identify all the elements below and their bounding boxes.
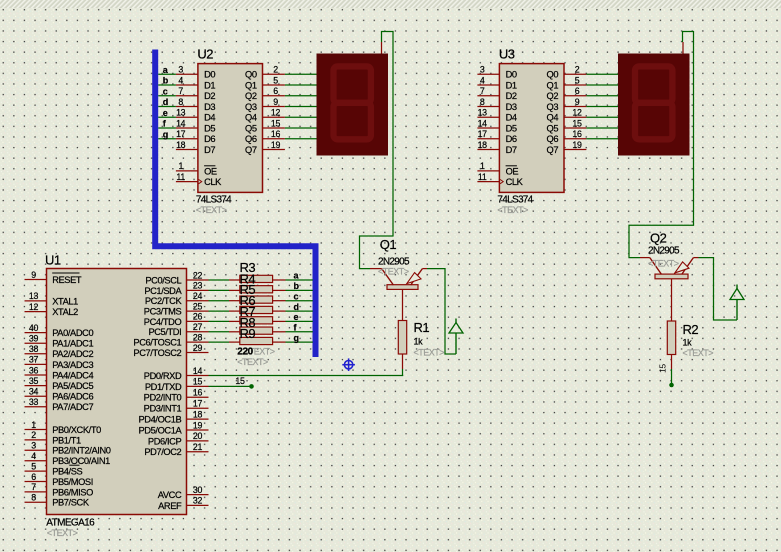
svg-text:D7: D7 <box>204 145 215 155</box>
svg-text:PD3/INT1: PD3/INT1 <box>144 404 182 414</box>
svg-text:22: 22 <box>193 270 203 280</box>
svg-text:Q4: Q4 <box>546 113 558 123</box>
svg-text:19: 19 <box>193 420 203 430</box>
svg-text:9: 9 <box>575 97 580 107</box>
svg-text:Q3: Q3 <box>245 102 257 112</box>
svg-text:D3: D3 <box>506 102 517 112</box>
svg-text:Q0: Q0 <box>546 70 558 80</box>
svg-text:16: 16 <box>193 388 203 398</box>
svg-text:4: 4 <box>480 75 485 85</box>
svg-text:c: c <box>294 291 299 301</box>
latch U2 74LS374 <box>196 47 263 216</box>
U3 left pin stubs D0-D7 with pin numbers <box>477 65 499 150</box>
7-segment display 1 <box>317 54 389 156</box>
transistor Q2 2N2905 PNP <box>640 231 699 322</box>
svg-text:<TEXT>: <TEXT> <box>414 348 445 358</box>
svg-text:Q6: Q6 <box>245 134 257 144</box>
svg-text:PC5/TDI: PC5/TDI <box>148 327 181 337</box>
svg-text:PD0/RXD: PD0/RXD <box>144 371 182 381</box>
svg-text:33: 33 <box>29 397 39 407</box>
svg-text:RESET: RESET <box>52 275 82 285</box>
svg-text:D0: D0 <box>506 70 517 80</box>
svg-text:<TEXT>: <TEXT> <box>378 267 409 277</box>
svg-text:e: e <box>294 312 299 322</box>
svg-text:13: 13 <box>176 108 186 118</box>
svg-text:4: 4 <box>178 75 183 85</box>
svg-text:13: 13 <box>478 108 488 118</box>
svg-text:12: 12 <box>271 108 281 118</box>
svg-text:18: 18 <box>478 140 488 150</box>
svg-text:PA3/ADC3: PA3/ADC3 <box>52 360 93 370</box>
svg-text:36: 36 <box>29 365 39 375</box>
svg-text:D7: D7 <box>506 145 517 155</box>
svg-text:PA2/ADC2: PA2/ADC2 <box>52 349 93 359</box>
svg-text:16: 16 <box>271 129 281 139</box>
svg-text:XTAL1: XTAL1 <box>52 296 78 306</box>
svg-text:D6: D6 <box>506 134 517 144</box>
U3 right pin stubs Q0-Q7 with pin numbers <box>564 65 586 150</box>
svg-text:Q1: Q1 <box>546 80 558 90</box>
svg-text:21: 21 <box>193 442 203 452</box>
svg-text:D5: D5 <box>204 123 215 133</box>
svg-text:1: 1 <box>480 161 485 171</box>
svg-text:26: 26 <box>193 312 203 322</box>
svg-text:8: 8 <box>480 97 485 107</box>
svg-text:1k: 1k <box>683 338 693 348</box>
svg-text:Q1: Q1 <box>380 237 397 252</box>
display 2 common pin stub <box>682 42 684 54</box>
svg-text:XTAL2: XTAL2 <box>52 307 78 317</box>
svg-text:4: 4 <box>31 451 36 461</box>
svg-text:18: 18 <box>176 140 186 150</box>
svg-text:U3: U3 <box>499 47 515 62</box>
svg-text:5: 5 <box>31 461 36 471</box>
svg-text:35: 35 <box>29 376 39 386</box>
svg-text:11: 11 <box>478 172 487 182</box>
wires U2 Q0-Q6 to 7-segment display 1 <box>285 74 317 138</box>
resistor R1 1k <box>398 320 444 369</box>
svg-text:17: 17 <box>478 129 488 139</box>
svg-text:R2: R2 <box>683 322 699 337</box>
svg-text:29: 29 <box>193 343 203 353</box>
svg-text:PC0/SCL: PC0/SCL <box>145 275 181 285</box>
svg-text:28: 28 <box>193 332 203 342</box>
svg-text:<TEXT>: <TEXT> <box>648 259 679 269</box>
wires U3 Q0-Q6 to 7-segment display 2 <box>586 74 618 138</box>
wire Q1 emitter to power arrow <box>427 269 456 354</box>
svg-text:PD5/OC1A: PD5/OC1A <box>139 425 183 435</box>
svg-text:3: 3 <box>178 65 183 75</box>
svg-text:D1: D1 <box>204 80 215 90</box>
svg-text:15: 15 <box>271 118 281 128</box>
svg-text:<TEXT>: <TEXT> <box>497 205 528 215</box>
svg-text:15: 15 <box>235 376 245 386</box>
svg-text:PA4/ADC4: PA4/ADC4 <box>52 370 93 380</box>
svg-text:1k: 1k <box>414 337 424 347</box>
latch U3 74LS374 <box>497 47 564 216</box>
svg-text:d: d <box>294 302 299 312</box>
svg-text:2: 2 <box>31 430 36 440</box>
svg-text:Q2: Q2 <box>245 91 257 101</box>
svg-text:Q5: Q5 <box>546 123 558 133</box>
svg-text:Q6: Q6 <box>546 134 558 144</box>
svg-text:<TEXT>: <TEXT> <box>683 348 714 358</box>
svg-text:8: 8 <box>178 97 183 107</box>
svg-text:14: 14 <box>176 118 186 128</box>
svg-text:1: 1 <box>31 420 36 430</box>
svg-text:25: 25 <box>193 301 203 311</box>
svg-text:37: 37 <box>29 355 39 365</box>
svg-text:PC6/TOSC1: PC6/TOSC1 <box>133 338 181 348</box>
svg-text:R1: R1 <box>414 320 430 335</box>
svg-text:R9: R9 <box>240 326 256 341</box>
svg-text:9: 9 <box>273 97 278 107</box>
svg-text:U2: U2 <box>197 47 213 62</box>
display 1 common pin stub <box>381 42 383 54</box>
svg-text:27: 27 <box>193 322 203 332</box>
svg-text:6: 6 <box>273 86 278 96</box>
svg-text:PD7/OC2: PD7/OC2 <box>144 447 181 457</box>
svg-text:34: 34 <box>29 387 39 397</box>
svg-text:32: 32 <box>193 496 203 506</box>
resistors R3-R9 value 220 <box>229 260 286 367</box>
svg-text:15: 15 <box>193 377 203 387</box>
svg-text:PB0/XCK/T0: PB0/XCK/T0 <box>52 425 101 435</box>
svg-text:e: e <box>163 108 168 118</box>
U2 left pin stubs D0-D7 with pin numbers <box>176 65 198 150</box>
svg-text:CLK: CLK <box>204 177 222 187</box>
svg-text:PB5/MOSI: PB5/MOSI <box>52 477 93 487</box>
svg-text:16: 16 <box>572 129 582 139</box>
svg-text:Q5: Q5 <box>245 123 257 133</box>
wire R2 bottom with net label 15 and junction dot <box>658 364 674 388</box>
svg-text:D4: D4 <box>506 113 517 123</box>
svg-text:3: 3 <box>480 65 485 75</box>
svg-text:2: 2 <box>575 65 580 75</box>
U1 right pin stubs with numbers and names <box>133 270 208 511</box>
svg-text:D0: D0 <box>204 70 215 80</box>
svg-text:14: 14 <box>478 118 488 128</box>
svg-text:17: 17 <box>193 399 203 409</box>
svg-text:1: 1 <box>178 161 183 171</box>
svg-text:OE: OE <box>506 166 519 176</box>
svg-text:Q1: Q1 <box>245 80 257 90</box>
svg-text:74LS374: 74LS374 <box>196 195 232 206</box>
svg-text:Q7: Q7 <box>245 145 257 155</box>
svg-text:14: 14 <box>193 366 203 376</box>
7-segment display 2 <box>618 54 690 156</box>
wire Q2 emitter to power arrow <box>699 258 738 320</box>
svg-text:2: 2 <box>273 65 278 75</box>
svg-text:b: b <box>163 76 169 86</box>
svg-text:7: 7 <box>480 86 485 96</box>
svg-text:PD1/TXD: PD1/TXD <box>145 382 182 392</box>
svg-text:12: 12 <box>29 302 39 312</box>
svg-text:19: 19 <box>572 140 582 150</box>
svg-text:17: 17 <box>176 129 186 139</box>
svg-text:D2: D2 <box>204 91 215 101</box>
svg-text:CLK: CLK <box>506 177 524 187</box>
svg-text:c: c <box>163 86 168 96</box>
svg-text:PB6/MISO: PB6/MISO <box>52 487 93 497</box>
svg-text:15: 15 <box>658 364 668 373</box>
svg-text:30: 30 <box>193 485 203 495</box>
svg-text:Q3: Q3 <box>546 102 558 112</box>
svg-text:D6: D6 <box>204 134 215 144</box>
svg-text:d: d <box>163 97 168 107</box>
U2 CLK pin 11 stub <box>176 172 198 182</box>
svg-text:PB4/SS: PB4/SS <box>52 467 82 477</box>
power arrow symbol near Q1 <box>449 319 463 355</box>
svg-text:6: 6 <box>31 472 36 482</box>
MCU U1 ATMEGA16 <box>45 253 187 539</box>
svg-text:PA5/ADC5: PA5/ADC5 <box>52 381 93 391</box>
svg-text:Q0: Q0 <box>245 70 257 80</box>
wires U1 PC0-PC6 to resistors <box>209 280 230 342</box>
svg-text:Q4: Q4 <box>245 113 257 123</box>
svg-text:Q2: Q2 <box>650 231 667 246</box>
U1 left pin stubs with numbers and names <box>25 270 111 508</box>
svg-text:U1: U1 <box>45 253 61 268</box>
svg-text:PB3/OC0/AIN1: PB3/OC0/AIN1 <box>52 456 110 466</box>
U2 OE pin 1 stub <box>176 161 198 171</box>
svg-text:19: 19 <box>271 140 281 150</box>
svg-text:PB2/INT2/AIN0: PB2/INT2/AIN0 <box>52 446 111 456</box>
svg-text:PA0/ADC0: PA0/ADC0 <box>52 328 93 338</box>
svg-text:PA1/ADC1: PA1/ADC1 <box>52 339 93 349</box>
svg-text:PB1/T1: PB1/T1 <box>52 435 81 445</box>
wire display2 common to Q2 collector <box>629 32 694 258</box>
svg-text:PC2/TCK: PC2/TCK <box>145 296 183 306</box>
svg-text:39: 39 <box>29 334 39 344</box>
wire U1 PD0 pin14 to R1 <box>209 375 404 377</box>
svg-text:D4: D4 <box>204 113 215 123</box>
svg-text:3: 3 <box>31 441 36 451</box>
svg-text:PD6/ICP: PD6/ICP <box>148 436 182 446</box>
svg-text:PC4/TDO: PC4/TDO <box>144 317 182 327</box>
svg-text:74LS374: 74LS374 <box>497 195 533 206</box>
transistor Q1 2N2905 PNP <box>370 237 427 321</box>
wires a-g from blue bus to U2 D0-D6 with net labels <box>158 65 176 139</box>
svg-text:23: 23 <box>193 281 203 291</box>
svg-text:OE: OE <box>204 166 217 176</box>
svg-text:9: 9 <box>31 270 36 280</box>
svg-text:18: 18 <box>193 409 203 419</box>
svg-text:6: 6 <box>575 86 580 96</box>
svg-text:15: 15 <box>572 118 582 128</box>
svg-text:b: b <box>294 281 300 291</box>
svg-text:20: 20 <box>193 431 203 441</box>
svg-text:ATMEGA16: ATMEGA16 <box>46 518 95 529</box>
svg-text:g: g <box>163 129 168 139</box>
svg-text:PC3/TMS: PC3/TMS <box>144 307 182 317</box>
wire U1 PD1 pin15 with net label 15 and junction dot <box>209 376 254 389</box>
svg-text:<TEXT>: <TEXT> <box>196 205 227 215</box>
svg-text:PC7/TOSC2: PC7/TOSC2 <box>133 348 181 358</box>
svg-text:PD4/OC1B: PD4/OC1B <box>139 415 182 425</box>
svg-text:12: 12 <box>572 108 582 118</box>
svg-text:11: 11 <box>176 172 185 182</box>
svg-text:D5: D5 <box>506 123 517 133</box>
svg-text:PA7/ADC7: PA7/ADC7 <box>52 402 93 412</box>
svg-text:40: 40 <box>29 323 39 333</box>
svg-text:g: g <box>294 333 299 343</box>
U3 OE pin 1 stub <box>477 161 499 171</box>
svg-text:PC1/SDA: PC1/SDA <box>144 286 182 296</box>
svg-text:38: 38 <box>29 344 39 354</box>
svg-text:D1: D1 <box>506 80 517 90</box>
svg-text:PA6/ADC6: PA6/ADC6 <box>52 392 93 402</box>
svg-text:Q7: Q7 <box>546 145 558 155</box>
svg-text:7: 7 <box>31 482 36 492</box>
svg-text:D3: D3 <box>204 102 215 112</box>
svg-text:AVCC: AVCC <box>158 490 182 500</box>
svg-text:24: 24 <box>193 291 203 301</box>
svg-text:7: 7 <box>178 86 183 96</box>
wire R1 bottom to PD0 net <box>402 369 404 376</box>
svg-text:5: 5 <box>575 75 580 85</box>
blue bus wire <box>155 50 315 358</box>
svg-text:2N2905: 2N2905 <box>648 246 680 257</box>
svg-text:D2: D2 <box>506 91 517 101</box>
svg-text:AREF: AREF <box>158 501 182 511</box>
wires a-g from resistors to blue bus with net labels <box>286 271 313 343</box>
svg-text:Q2: Q2 <box>546 91 558 101</box>
svg-text:13: 13 <box>29 291 39 301</box>
power arrow symbol near Q2 <box>730 285 744 321</box>
U3 CLK pin 11 stub <box>477 172 499 182</box>
svg-text:5: 5 <box>273 75 278 85</box>
svg-text:PD2/INT0: PD2/INT0 <box>144 393 182 403</box>
wire display1 common to Q1 collector <box>360 32 394 269</box>
blue origin crosshair marker <box>342 358 355 371</box>
resistor R2 1k <box>667 321 713 369</box>
svg-text:<TEXT>: <TEXT> <box>237 357 268 367</box>
U2 right pin stubs Q0-Q7 with pin numbers <box>263 65 285 150</box>
svg-text:8: 8 <box>31 493 36 503</box>
svg-text:<TEXT>: <TEXT> <box>47 528 78 538</box>
svg-text:PB7/SCK: PB7/SCK <box>52 498 90 508</box>
